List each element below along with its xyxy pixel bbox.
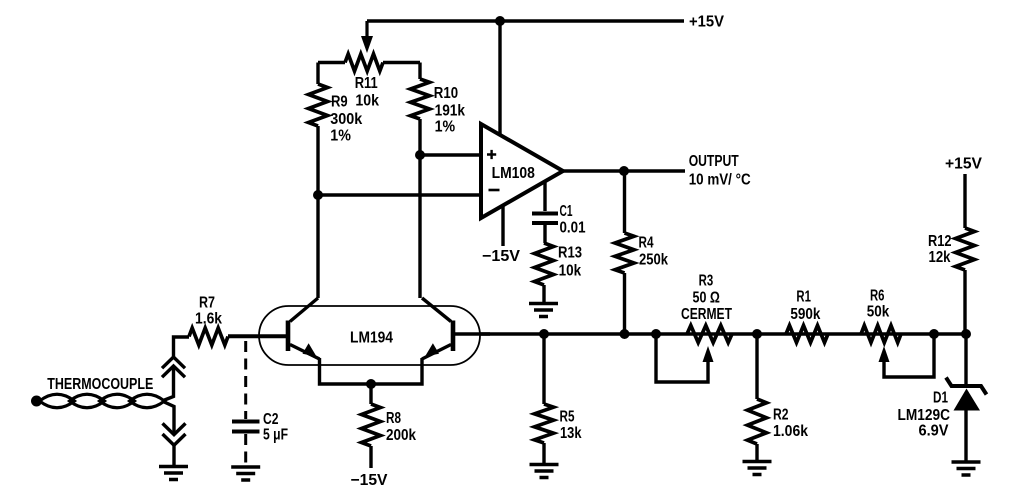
wire: op-amp output — [563, 169, 685, 172]
node: emitter junction — [366, 379, 376, 389]
wire: thermocouple lower lead — [162, 401, 174, 466]
svg-text:1.6k: 1.6k — [195, 311, 222, 328]
svg-text:0.01: 0.01 — [560, 220, 586, 237]
resistor R13 10k — [535, 243, 554, 285]
ground (C2) — [231, 467, 260, 480]
trimmer R3 50 ohm CERMET — [687, 326, 732, 343]
Q2 base lead — [453, 332, 490, 335]
svg-text:R10: R10 — [434, 85, 458, 102]
op-amp - input sign — [489, 189, 500, 192]
thermocouple TC1 twisted pair — [31, 396, 42, 407]
wire: R10 to non-inverting input — [420, 153, 481, 156]
svg-text:5 μF: 5 μF — [263, 427, 288, 444]
node: R6 strap junction — [929, 329, 939, 339]
wire: R9 branch down to Q1 collector — [316, 195, 319, 298]
svg-text:200k: 200k — [386, 427, 416, 444]
node: + input tap — [415, 150, 425, 160]
svg-text:590k: 590k — [790, 306, 820, 323]
zener diode D1 LM129C 6.9V — [964, 334, 967, 388]
resistor R12 12k — [963, 174, 966, 228]
svg-text:LM129C: LM129C — [898, 407, 951, 424]
svg-text:10k: 10k — [355, 93, 379, 110]
Q2 collector lead — [422, 298, 451, 322]
resistor R8 200k — [369, 384, 372, 404]
wire: main bottom rail — [480, 332, 966, 335]
ground (R13) — [529, 304, 558, 317]
wire: R3 wiper strap — [656, 334, 708, 382]
chevrons: lower junction marks — [163, 423, 186, 445]
svg-text:12k: 12k — [929, 249, 951, 266]
node: - input tap — [313, 190, 323, 200]
wire: common emitter node — [320, 358, 423, 384]
node: D1 rail junction — [961, 329, 971, 339]
node: R3 right junction — [752, 329, 762, 339]
svg-text:10 mV/ °C: 10 mV/ °C — [689, 171, 751, 188]
svg-text:LM108: LM108 — [492, 165, 536, 182]
svg-text:OUTPUT: OUTPUT — [689, 153, 739, 170]
transistor Q2 (LM194 right): base bar — [451, 321, 456, 352]
Q1 emitter lead with arrow — [290, 345, 320, 360]
svg-text:R4: R4 — [639, 235, 654, 252]
svg-text:R13: R13 — [558, 245, 582, 262]
svg-text:D1: D1 — [933, 390, 948, 407]
wire: thermocouple upper lead — [162, 337, 189, 401]
svg-text:250k: 250k — [639, 252, 668, 269]
svg-text:6.9V: 6.9V — [919, 423, 950, 440]
R3 wiper arrow — [703, 346, 714, 362]
svg-text:R6: R6 — [870, 288, 885, 305]
svg-text:300k: 300k — [330, 111, 362, 128]
ground (R5) — [530, 465, 559, 478]
D1 cathode bar (zener) — [946, 378, 987, 395]
Q1 collector lead — [290, 298, 318, 322]
svg-text:R2: R2 — [773, 407, 789, 424]
svg-text:50k: 50k — [867, 304, 890, 321]
svg-text:1.06k: 1.06k — [773, 423, 808, 440]
wire: op-amp V- supply — [501, 206, 504, 246]
D1 anode triangle — [954, 389, 981, 411]
node: R5 junction — [539, 329, 549, 339]
svg-text:LM194: LM194 — [350, 329, 393, 346]
ground (thermocouple) — [159, 467, 188, 480]
svg-text:R8: R8 — [386, 410, 401, 427]
svg-text:−15V: −15V — [482, 248, 521, 265]
svg-text:10k: 10k — [559, 263, 582, 280]
wire: R10 branch down to Q2 collector — [418, 155, 421, 298]
svg-text:13k: 13k — [560, 425, 582, 442]
wire: op-amp V+ supply — [498, 21, 501, 135]
op-amp + input sign — [487, 150, 496, 159]
svg-text:THERMOCOUPLE: THERMOCOUPLE — [47, 376, 153, 393]
svg-text:R1: R1 — [796, 289, 811, 306]
svg-text:1%: 1% — [330, 128, 351, 145]
transistor Q1 (LM194 left): base bar — [286, 321, 291, 352]
svg-text:+15V: +15V — [945, 156, 983, 173]
resistor R2 1.06k — [755, 334, 758, 399]
svg-text:R5: R5 — [560, 409, 575, 426]
svg-text:R11: R11 — [355, 75, 378, 92]
wire: R6 wiper strap — [884, 334, 934, 377]
resistor R10 191k 1% — [418, 63, 421, 80]
svg-text:CERMET: CERMET — [681, 306, 732, 323]
wire: +15V top rail — [367, 19, 684, 23]
capacitor C2 5uF (dashed) — [244, 341, 247, 419]
node: output junction — [619, 166, 629, 176]
resistor R5 13k — [542, 334, 545, 404]
svg-text:R9: R9 — [331, 93, 348, 110]
ground (R2) — [743, 462, 772, 475]
node: V+ rail junction — [495, 16, 505, 26]
svg-text:191k: 191k — [435, 102, 466, 119]
svg-text:R12: R12 — [928, 233, 952, 250]
svg-text:R3: R3 — [699, 273, 714, 290]
svg-text:C1: C1 — [560, 203, 573, 220]
capacitor C1 0.01 — [543, 181, 546, 212]
Q2 emitter lead with arrow — [422, 345, 451, 360]
trimmer R6 50k — [861, 326, 901, 343]
ground (D1) — [952, 462, 981, 475]
svg-text:+15V: +15V — [689, 14, 725, 31]
resistor R9 300k 1% — [316, 63, 319, 85]
svg-text:50 Ω: 50 Ω — [693, 290, 720, 307]
svg-text:−15V: −15V — [351, 472, 389, 489]
wire: rail drop to R11 wiper (arrow) — [365, 21, 368, 38]
chevrons: upper junction marks — [162, 357, 185, 377]
node: R3 left junction — [651, 329, 661, 339]
potentiometer R11 10k — [318, 61, 345, 64]
Q1 base lead — [228, 334, 288, 337]
node: R4 rail junction — [620, 329, 630, 339]
R6 wiper arrow — [879, 346, 890, 362]
transistor pair LM194 outline — [259, 306, 480, 365]
resistor R7 1.6k — [189, 328, 228, 345]
resistor R4 250k — [623, 171, 626, 233]
wire: R9 to inverting input — [318, 193, 481, 196]
resistor R1 590k — [786, 326, 828, 343]
op-amp U1 LM108 — [481, 124, 563, 218]
svg-text:R7: R7 — [199, 295, 215, 312]
svg-text:1%: 1% — [435, 118, 456, 135]
svg-text:C2: C2 — [263, 411, 279, 428]
